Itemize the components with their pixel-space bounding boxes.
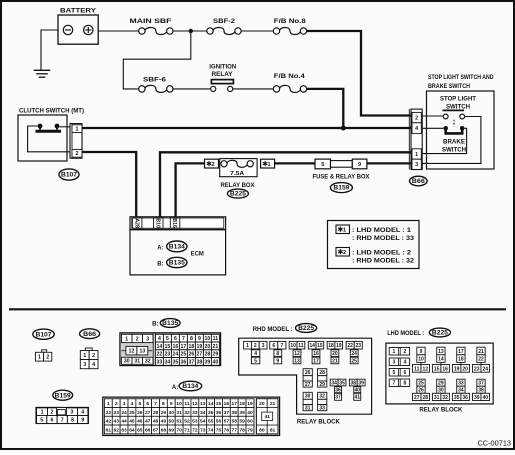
svg-text:18: 18	[458, 357, 464, 363]
svg-text:69: 69	[169, 427, 175, 433]
connector B134 pinout grid	[103, 397, 280, 435]
connector B107 pinout	[35, 350, 51, 361]
svg-text:8: 8	[404, 381, 407, 387]
relay block RHD cells	[244, 341, 366, 411]
ECM label B: B135	[157, 257, 187, 267]
svg-text:40: 40	[213, 359, 219, 365]
wire pin4 to brake switch	[422, 127, 443, 129]
svg-text:22: 22	[347, 343, 353, 349]
svg-text:2: 2	[343, 250, 346, 256]
oval B107 (pinout)	[33, 329, 54, 339]
svg-text:26: 26	[189, 352, 195, 358]
svg-text:9: 9	[276, 358, 279, 364]
connector B135 pinout grid	[120, 333, 221, 366]
svg-text:37: 37	[189, 359, 195, 365]
svg-text:6: 6	[174, 336, 177, 342]
svg-text:19: 19	[336, 343, 342, 349]
svg-text:B:: B:	[157, 262, 163, 268]
svg-text:12: 12	[422, 366, 428, 372]
svg-text:5: 5	[254, 358, 257, 364]
svg-text:STOP LIGHT: STOP LIGHT	[440, 95, 476, 102]
svg-text:16: 16	[173, 344, 179, 350]
svg-text:1: 1	[107, 401, 110, 407]
svg-text:B66: B66	[83, 332, 97, 338]
svg-text:SBF-2: SBF-2	[213, 18, 236, 25]
svg-text:45: 45	[129, 419, 135, 425]
svg-text:46: 46	[137, 419, 143, 425]
svg-text:34: 34	[331, 380, 337, 386]
stop light switch label	[440, 95, 476, 110]
svg-text:3: 3	[123, 401, 126, 407]
svg-text:61: 61	[106, 427, 112, 433]
svg-text:CC-00713: CC-00713	[478, 440, 512, 447]
svg-text:29: 29	[161, 410, 167, 416]
svg-text:36: 36	[335, 388, 341, 394]
svg-text:SWITCH: SWITCH	[446, 103, 470, 110]
svg-text:39: 39	[205, 359, 211, 365]
svg-text:26: 26	[137, 410, 143, 416]
svg-text:62: 62	[113, 427, 119, 433]
svg-text:12: 12	[192, 401, 198, 407]
svg-text:6: 6	[146, 401, 149, 407]
svg-text:72: 72	[192, 427, 198, 433]
svg-text:14: 14	[309, 343, 315, 349]
svg-text:MAIN SBF: MAIN SBF	[130, 18, 172, 25]
legend box	[328, 221, 420, 269]
svg-text:33: 33	[458, 381, 464, 387]
stop light switch and brake switch box	[427, 91, 495, 169]
oval B107	[59, 169, 79, 180]
svg-text:4: 4	[131, 401, 134, 407]
wire relay box to fuse & relay box	[275, 162, 315, 164]
svg-text:36: 36	[462, 395, 468, 401]
fuse SBF-2	[207, 28, 241, 35]
svg-text:3: 3	[415, 162, 418, 168]
svg-text:24: 24	[173, 352, 179, 358]
svg-text:2: 2	[211, 162, 214, 168]
svg-text:30: 30	[438, 388, 444, 394]
svg-text:63: 63	[121, 427, 127, 433]
fuse SBF-2 label	[213, 18, 236, 25]
svg-text:58: 58	[232, 419, 238, 425]
svg-text:48: 48	[153, 419, 159, 425]
svg-text:65: 65	[137, 427, 143, 433]
svg-text:74: 74	[208, 427, 214, 433]
svg-text:3: 3	[262, 343, 265, 349]
svg-text:13: 13	[139, 349, 145, 355]
svg-text:3: 3	[146, 336, 149, 342]
svg-text:32: 32	[442, 395, 448, 401]
fuse 7.5A in relay box	[220, 159, 257, 177]
svg-text:18: 18	[239, 401, 245, 407]
wire ECM B16 to relay box terminal 2	[176, 163, 205, 218]
svg-text:2: 2	[254, 343, 257, 349]
svg-text:CLUTCH SWITCH (MT): CLUTCH SWITCH (MT)	[19, 108, 84, 115]
ECM box	[130, 230, 226, 275]
svg-text:43: 43	[113, 419, 119, 425]
fuse & relay box terminal 9	[352, 159, 367, 169]
svg-text:31: 31	[134, 359, 140, 365]
svg-text:B159: B159	[55, 393, 72, 399]
svg-text:37: 37	[335, 395, 341, 401]
wire MAIN SBF to SBF-2	[173, 30, 207, 32]
svg-text:RHD MODEL :: RHD MODEL :	[253, 326, 293, 333]
svg-text:35: 35	[454, 395, 460, 401]
svg-text:3: 3	[393, 360, 396, 366]
drawing number	[478, 440, 512, 447]
svg-text:27: 27	[414, 395, 420, 401]
svg-text:55: 55	[208, 419, 214, 425]
svg-text:B:: B:	[152, 322, 158, 328]
svg-text:8: 8	[71, 417, 74, 423]
fuse F/B No.8	[273, 28, 306, 35]
svg-text:8: 8	[162, 401, 165, 407]
brake switch label	[442, 138, 466, 153]
label RHD MODEL : B225	[253, 324, 317, 334]
svg-text:16: 16	[313, 351, 319, 357]
svg-text:36: 36	[181, 359, 187, 365]
wire ECM B10 to B66 pin 1	[160, 152, 411, 218]
svg-text:2: 2	[136, 336, 139, 342]
svg-text:1: 1	[76, 127, 79, 133]
svg-text:BRAKE: BRAKE	[443, 138, 465, 145]
wire clutch pin1 row to B66 pin 4	[82, 127, 411, 129]
svg-text:30: 30	[169, 410, 175, 416]
svg-text:RELAY: RELAY	[212, 71, 234, 78]
svg-text:ECM: ECM	[191, 250, 204, 257]
svg-text:20: 20	[462, 366, 468, 372]
svg-text:1: 1	[246, 343, 249, 349]
svg-text:60: 60	[247, 419, 253, 425]
svg-text:3: 3	[83, 362, 86, 368]
svg-text:38: 38	[478, 388, 484, 394]
svg-text:B16: B16	[171, 218, 177, 228]
svg-text:B225: B225	[432, 331, 449, 337]
svg-text:: LHD MODEL : 1: : LHD MODEL : 1	[352, 228, 412, 234]
svg-text:5: 5	[166, 336, 169, 342]
svg-text:23: 23	[165, 352, 171, 358]
svg-text:F/B No.8: F/B No.8	[274, 18, 307, 25]
relay box terminal *2	[205, 159, 219, 168]
svg-text:2: 2	[92, 353, 95, 359]
svg-text:11: 11	[298, 343, 304, 349]
svg-text:31: 31	[305, 406, 311, 412]
svg-text:9: 9	[170, 401, 173, 407]
legend *2	[336, 248, 415, 265]
svg-text:1: 1	[83, 353, 86, 359]
svg-text:: LHD MODEL : 2: : LHD MODEL : 2	[352, 250, 412, 256]
svg-text:8: 8	[190, 336, 193, 342]
fuse & relay box terminal 5	[315, 159, 331, 169]
svg-text:7: 7	[61, 417, 64, 423]
ECM pin B16	[170, 218, 180, 228]
svg-text:10: 10	[205, 336, 211, 342]
svg-text:7: 7	[182, 336, 185, 342]
battery	[58, 15, 98, 44]
svg-text:13: 13	[200, 401, 206, 407]
svg-text:22: 22	[478, 357, 484, 363]
svg-text:19: 19	[197, 344, 203, 350]
svg-text:9: 9	[198, 336, 201, 342]
ECM label A: B134	[157, 241, 187, 252]
svg-text:10: 10	[290, 343, 296, 349]
svg-text:41: 41	[354, 395, 360, 401]
connector B159 pinout	[36, 407, 88, 423]
svg-text:53: 53	[192, 419, 198, 425]
svg-text:78: 78	[239, 427, 245, 433]
svg-text:35: 35	[173, 359, 179, 365]
svg-text:18: 18	[328, 343, 334, 349]
svg-text:38: 38	[351, 380, 357, 386]
fuse & relay box label	[313, 173, 371, 180]
junction node pin4 row	[341, 126, 346, 131]
svg-text:21: 21	[332, 358, 338, 364]
svg-text:71: 71	[184, 427, 190, 433]
wire branch junction to SBF-6	[123, 32, 191, 89]
svg-text:4: 4	[254, 351, 257, 357]
svg-text:23: 23	[355, 343, 361, 349]
svg-text:11: 11	[414, 366, 420, 372]
svg-text:23: 23	[474, 366, 480, 372]
wire battery positive to MAIN SBF	[98, 30, 139, 32]
svg-text:B159: B159	[333, 186, 350, 192]
svg-text:41: 41	[264, 414, 270, 420]
svg-text:20: 20	[259, 401, 265, 407]
svg-text:7: 7	[280, 343, 283, 349]
svg-text:2: 2	[51, 410, 54, 416]
svg-text:A:: A:	[157, 245, 163, 251]
relay block LHD outline	[386, 343, 493, 404]
svg-text:7: 7	[393, 381, 396, 387]
svg-text:RELAY BOX: RELAY BOX	[221, 182, 256, 189]
svg-text:25: 25	[129, 410, 135, 416]
ECM pin B10	[154, 218, 164, 228]
svg-text:5: 5	[138, 401, 141, 407]
svg-text:1: 1	[125, 336, 128, 342]
svg-text:28: 28	[422, 395, 428, 401]
svg-text:7: 7	[154, 401, 157, 407]
svg-text:33: 33	[157, 359, 163, 365]
svg-text:9: 9	[81, 417, 84, 423]
legend *1	[336, 225, 415, 242]
svg-text:15: 15	[317, 343, 323, 349]
svg-text:: RHD MODEL : 33: : RHD MODEL : 33	[352, 236, 415, 242]
svg-text:5: 5	[321, 162, 324, 168]
svg-text:15: 15	[216, 401, 222, 407]
svg-text:21: 21	[270, 401, 276, 407]
svg-text:LHD MODEL :: LHD MODEL :	[387, 330, 424, 337]
svg-text:23: 23	[113, 410, 119, 416]
svg-text:4: 4	[92, 362, 95, 368]
oval B225 (relay box)	[227, 189, 248, 198]
wire battery negative to ground	[41, 30, 58, 70]
wire pin2 to stop light switch	[422, 115, 443, 117]
svg-text:76: 76	[224, 427, 230, 433]
svg-text:4: 4	[404, 360, 407, 366]
svg-text:2: 2	[46, 355, 49, 361]
ignition relay label	[209, 64, 236, 78]
svg-text:11: 11	[213, 336, 219, 342]
fuse MAIN SBF label	[130, 18, 172, 25]
svg-text:11: 11	[184, 401, 189, 407]
svg-text:B134: B134	[182, 384, 199, 390]
relay block LHD cells	[389, 347, 489, 401]
svg-text:40: 40	[354, 388, 360, 394]
svg-text:: RHD MODEL : 32: : RHD MODEL : 32	[352, 259, 415, 265]
svg-text:34: 34	[200, 410, 206, 416]
svg-text:4: 4	[158, 336, 161, 342]
junction after MAIN SBF	[189, 29, 193, 33]
svg-text:20: 20	[205, 344, 211, 350]
fuse F/B No.8 label	[274, 18, 307, 25]
relay box terminal *1	[261, 159, 275, 168]
svg-text:19: 19	[247, 401, 253, 407]
clutch switch box	[18, 115, 67, 161]
wire brake switch to pin 1	[422, 128, 466, 153]
svg-text:51: 51	[176, 419, 182, 425]
wire SBF-6 to ignition relay	[173, 88, 210, 90]
svg-text:8: 8	[276, 351, 279, 357]
svg-text:28: 28	[319, 370, 325, 376]
svg-text:24: 24	[121, 410, 127, 416]
oval B159	[330, 183, 352, 193]
clutch switch label	[19, 108, 84, 115]
battery B+ label	[60, 8, 97, 15]
separator line	[9, 308, 506, 310]
dashed link stop/brake	[453, 120, 455, 127]
svg-text:B66: B66	[412, 179, 426, 185]
svg-text:36: 36	[216, 410, 222, 416]
svg-text:21: 21	[478, 349, 484, 355]
relay block LHD label	[419, 407, 462, 414]
svg-text:RELAY BLOCK: RELAY BLOCK	[419, 407, 462, 414]
svg-text:37: 37	[224, 410, 230, 416]
ground	[34, 70, 51, 77]
wire clutch contact to pin 1	[59, 126, 72, 128]
svg-text:67: 67	[153, 427, 159, 433]
relay block RHD outline	[239, 338, 372, 414]
svg-text:4: 4	[415, 126, 418, 132]
oval B66	[410, 176, 428, 186]
svg-text:50: 50	[169, 419, 175, 425]
svg-text:29: 29	[438, 381, 444, 387]
svg-text:15: 15	[434, 366, 440, 372]
svg-text:38: 38	[232, 410, 238, 416]
fuse SBF-6	[139, 85, 173, 92]
svg-text:38: 38	[197, 359, 203, 365]
relay box label	[221, 182, 256, 189]
svg-text:5: 5	[393, 370, 396, 376]
svg-text:39: 39	[474, 395, 480, 401]
svg-text:1: 1	[415, 152, 418, 158]
svg-text:20: 20	[332, 351, 338, 357]
svg-text:64: 64	[129, 427, 135, 433]
ECM connector strip	[130, 217, 226, 230]
svg-text:21: 21	[213, 344, 219, 350]
svg-text:16: 16	[224, 401, 230, 407]
svg-text:14: 14	[438, 357, 444, 363]
wire F/B No.4 down to junction node	[307, 89, 344, 128]
brake switch	[443, 126, 464, 133]
connector B107 (clutch switch)	[70, 124, 82, 159]
svg-text:1: 1	[393, 349, 396, 355]
svg-text:2: 2	[76, 151, 79, 157]
svg-text:B225: B225	[230, 192, 247, 198]
svg-text:47: 47	[145, 419, 151, 425]
wire fuse & relay box to B66 pin 3	[367, 162, 411, 164]
svg-text:24: 24	[482, 366, 488, 372]
label A: B134	[172, 381, 202, 391]
svg-text:39: 39	[358, 380, 364, 386]
svg-text:17: 17	[181, 344, 187, 350]
svg-text:B225: B225	[298, 326, 315, 332]
svg-text:9: 9	[420, 349, 423, 355]
ignition relay	[211, 80, 234, 92]
ECM pin A28	[132, 218, 142, 228]
svg-text:FUSE & RELAY BOX: FUSE & RELAY BOX	[313, 173, 371, 180]
svg-text:26: 26	[418, 388, 424, 394]
svg-text:5: 5	[40, 417, 43, 423]
svg-text:14: 14	[157, 344, 163, 350]
svg-text:32: 32	[319, 394, 325, 400]
svg-text:54: 54	[200, 419, 206, 425]
svg-text:34: 34	[458, 388, 464, 394]
fuse MAIN SBF	[139, 28, 173, 35]
svg-text:57: 57	[224, 419, 230, 425]
svg-text:56: 56	[216, 419, 222, 425]
svg-text:A28: A28	[133, 218, 139, 228]
svg-text:59: 59	[239, 419, 245, 425]
svg-text:73: 73	[200, 427, 206, 433]
svg-text:70: 70	[176, 427, 182, 433]
svg-text:6: 6	[404, 370, 407, 376]
svg-text:30: 30	[124, 359, 130, 365]
svg-text:77: 77	[232, 427, 238, 433]
svg-text:F/B No.4: F/B No.4	[274, 73, 306, 80]
svg-text:68: 68	[161, 427, 167, 433]
svg-text:31: 31	[434, 395, 440, 401]
wire F/B No.8 to stop light switch pin 2	[307, 31, 411, 116]
svg-text:B10: B10	[154, 218, 160, 228]
svg-text:17: 17	[232, 401, 238, 407]
svg-text:12: 12	[129, 349, 135, 355]
svg-text:27: 27	[305, 382, 311, 388]
svg-text:19: 19	[454, 366, 460, 372]
wire clutch pin2 to ECM A28	[82, 152, 136, 218]
svg-text:30: 30	[305, 394, 311, 400]
stop light switch and brake switch label	[428, 74, 494, 90]
svg-text:40: 40	[482, 395, 488, 401]
svg-text:BRAKE SWITCH: BRAKE SWITCH	[428, 83, 470, 90]
svg-text:RELAY BLOCK: RELAY BLOCK	[297, 418, 340, 425]
svg-text:34: 34	[165, 359, 171, 365]
svg-text:28: 28	[205, 352, 211, 358]
svg-text:37: 37	[478, 381, 484, 387]
wire clutch contact to pin 2	[28, 126, 72, 152]
relay block RHD label	[297, 418, 340, 425]
stop light switch	[443, 110, 465, 119]
svg-text:25: 25	[418, 381, 424, 387]
svg-text:26: 26	[305, 370, 311, 376]
svg-text:75: 75	[216, 427, 222, 433]
svg-text:40: 40	[247, 410, 253, 416]
svg-text:B107: B107	[61, 173, 78, 179]
svg-text:2: 2	[415, 116, 418, 122]
svg-text:29: 29	[319, 382, 325, 388]
svg-text:27: 27	[197, 352, 203, 358]
connector B66 pinout	[80, 348, 98, 369]
svg-text:25: 25	[351, 358, 357, 364]
